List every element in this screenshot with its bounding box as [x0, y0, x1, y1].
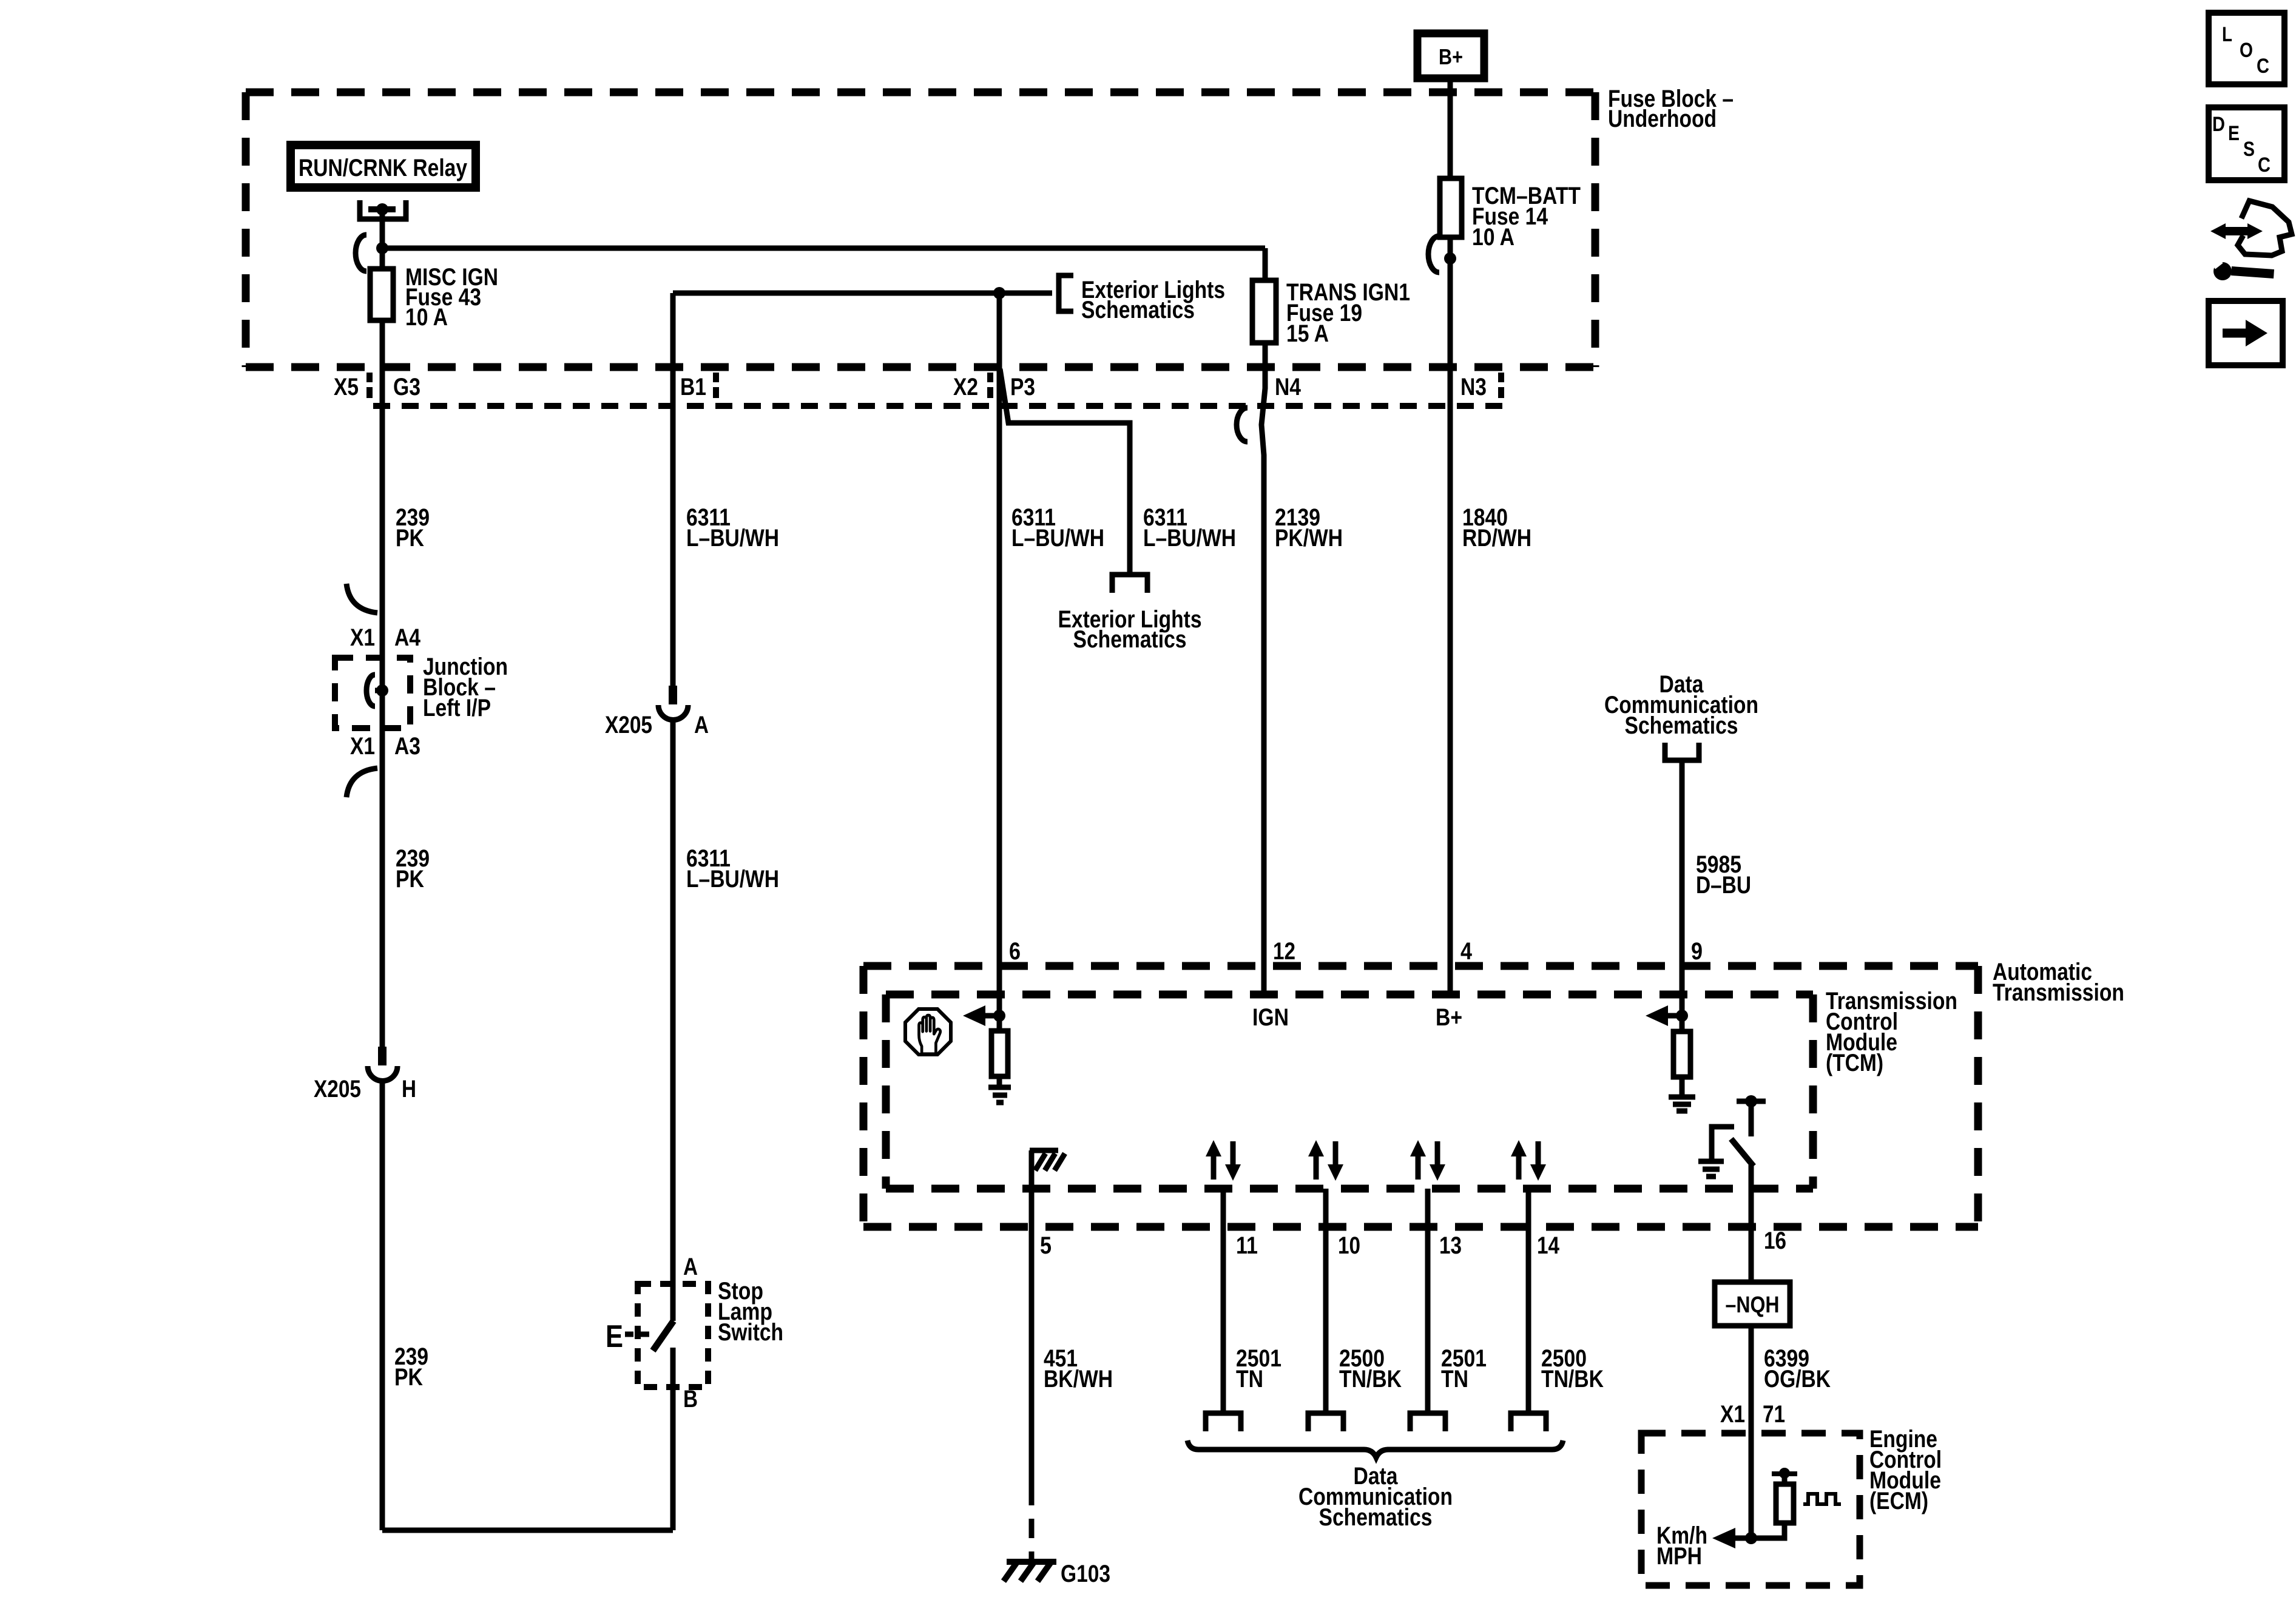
svg-text:4: 4	[1460, 938, 1473, 965]
wire label 6311 L-BU/WH (branch)	[1143, 504, 1236, 552]
svg-text:6: 6	[1009, 938, 1021, 965]
pin 9 arrow left	[1666, 1013, 1682, 1019]
connector separator X2	[987, 373, 993, 398]
svg-text:Left I/P: Left I/P	[423, 695, 491, 721]
svg-text:X5: X5	[334, 374, 359, 400]
svg-text:9: 9	[1691, 938, 1703, 965]
pin 10 wire	[1323, 1189, 1329, 1413]
icon DESC box	[2209, 107, 2284, 180]
svg-text:16: 16	[1764, 1227, 1786, 1254]
clip below junction block	[346, 768, 377, 797]
connector X205 A	[669, 686, 677, 704]
svg-text:E: E	[2228, 122, 2240, 145]
svg-text:X205: X205	[314, 1076, 361, 1102]
TCM inner dashed box	[886, 994, 1813, 1189]
svg-text:PK: PK	[396, 866, 424, 893]
relay RUN/CRNK box	[291, 145, 476, 187]
wire TRANS IGN1 fuse to pin 12	[1261, 343, 1265, 994]
wire relay output to TRANS IGN1 fuse	[382, 246, 1265, 251]
svg-text:X2: X2	[953, 374, 978, 400]
svg-text:TN/BK: TN/BK	[1339, 1366, 1402, 1393]
svg-text:B+: B+	[1439, 44, 1463, 69]
svg-text:N3: N3	[1460, 374, 1487, 400]
junction block left I/P dashed box	[335, 658, 410, 728]
svg-text:11: 11	[1236, 1232, 1258, 1259]
connector label X1 A4	[350, 624, 421, 651]
svg-text:B+: B+	[1436, 1004, 1462, 1031]
wire B+ down to TCM-BATT fuse	[1448, 76, 1453, 178]
switch pin B label	[683, 1386, 698, 1413]
svg-text:L–BU/WH: L–BU/WH	[686, 525, 779, 552]
wire label 2501 TN	[1236, 1345, 1281, 1393]
svg-text:H: H	[402, 1076, 416, 1102]
svg-text:Switch: Switch	[718, 1319, 783, 1346]
brace data communication	[1187, 1440, 1563, 1457]
exterior lights schematics bracket (right)	[1059, 275, 1073, 311]
svg-text:OG/BK: OG/BK	[1764, 1366, 1831, 1393]
hand glyph	[919, 1015, 940, 1054]
svg-text:(ECM): (ECM)	[1869, 1488, 1928, 1514]
exterior lights lower bracket	[1112, 575, 1147, 593]
pin 5 label	[1040, 1232, 1052, 1259]
terminal pin 13	[1410, 1413, 1445, 1431]
switch E actuator symbol	[606, 1319, 623, 1354]
svg-text:10 A: 10 A	[1472, 224, 1514, 251]
data communication schematics bracket (top)	[1665, 743, 1699, 760]
pin 9 resistor	[1680, 1016, 1685, 1031]
wire corner to exterior lights bracket	[673, 291, 1052, 296]
pin 16 wire down to -NQH	[1749, 1165, 1754, 1282]
switch blade	[653, 1321, 674, 1351]
ECM pull-up resistor	[1751, 1523, 1784, 1538]
ECM pulse signal symbol	[1803, 1494, 1841, 1504]
svg-text:G103: G103	[1061, 1561, 1110, 1587]
junction dot inside junction block	[376, 684, 388, 697]
svg-text:TN: TN	[1441, 1366, 1468, 1393]
svg-text:PK/WH: PK/WH	[1275, 525, 1343, 552]
svg-text:(TCM): (TCM)	[1826, 1050, 1883, 1076]
svg-text:5: 5	[1040, 1232, 1052, 1259]
IGN node label	[1252, 1004, 1289, 1031]
svg-text:D–BU: D–BU	[1696, 872, 1751, 899]
wire label 2501 TN	[1441, 1345, 1487, 1393]
wire stop lamp switch A up to B1 (6311 L-BU/WH)	[670, 720, 676, 1321]
svg-text:L–BU/WH: L–BU/WH	[1143, 525, 1236, 552]
dashed wire to G103	[1029, 1486, 1035, 1559]
terminal pin 10	[1308, 1413, 1343, 1431]
pin 6 node dot	[993, 1010, 1005, 1022]
wire -NQH to ECM pin 71 (6399 OG/BK)	[1749, 1326, 1754, 1538]
svg-text:X1: X1	[350, 624, 375, 651]
icon wrench	[2231, 266, 2274, 279]
relay terminal bracket	[360, 200, 406, 219]
wire label 2500 TN/BK	[1339, 1345, 1402, 1393]
pin 13 wire	[1425, 1189, 1431, 1413]
wire P3 down to pin 6 (6311 L-BU/WH)	[997, 293, 1002, 1016]
pin 14 wire	[1526, 1189, 1531, 1413]
svg-text:S: S	[2243, 138, 2255, 161]
B+ terminal box	[1417, 33, 1484, 78]
svg-text:L–BU/WH: L–BU/WH	[686, 866, 779, 893]
svg-text:L: L	[2222, 23, 2232, 46]
wire label 239 PK (upper)	[396, 504, 430, 552]
pin 10 up/down arrows	[1308, 1140, 1343, 1181]
-NQH option box	[1715, 1282, 1790, 1326]
svg-text:P3: P3	[1010, 374, 1035, 400]
fuse TCM-BATT Fuse 14	[1440, 178, 1462, 237]
automatic transmission outer dashed box	[863, 966, 1978, 1227]
svg-text:15 A: 15 A	[1286, 320, 1329, 347]
svg-text:IGN: IGN	[1252, 1004, 1289, 1031]
pin 6 resistor	[997, 1016, 1002, 1031]
connector separator X5	[366, 373, 373, 398]
svg-text:G3: G3	[393, 374, 420, 400]
stop lamp switch dashed box	[638, 1284, 708, 1387]
connector labels	[334, 374, 1487, 400]
svg-text:B: B	[683, 1386, 698, 1413]
wire TCM-BATT fuse to pin 4	[1448, 237, 1453, 994]
fuse block underhood dashed box	[246, 92, 1595, 367]
pin 11 wire	[1221, 1189, 1226, 1413]
svg-text:C: C	[2257, 55, 2269, 78]
fuse TRANS IGN1 Fuse 19	[1252, 280, 1276, 343]
connector separator B1	[713, 373, 719, 398]
engine control module dashed box	[1641, 1433, 1860, 1585]
svg-text:Schematics: Schematics	[1625, 712, 1738, 739]
pin 16 switch fixed contact to ground	[1712, 1127, 1734, 1160]
svg-text:TN: TN	[1236, 1366, 1263, 1393]
svg-text:PK: PK	[396, 525, 424, 552]
svg-text:X1: X1	[1720, 1401, 1745, 1428]
pin 16 switch blade	[1731, 1139, 1754, 1166]
svg-text:RD/WH: RD/WH	[1462, 525, 1531, 552]
svg-text:A: A	[683, 1254, 698, 1280]
connector row dashed line	[373, 403, 1512, 409]
ground G103	[1007, 1559, 1056, 1565]
svg-text:Schematics: Schematics	[1319, 1504, 1433, 1531]
wire X205 A up to corner at fuse block	[670, 293, 676, 686]
pin 9 label	[1691, 938, 1703, 965]
svg-text:RUN/CRNK Relay: RUN/CRNK Relay	[299, 155, 468, 181]
wire label 2500 TN/BK	[1541, 1345, 1604, 1393]
switch pin A label	[683, 1254, 698, 1280]
svg-text:14: 14	[1537, 1232, 1560, 1259]
svg-text:A: A	[694, 712, 709, 738]
clip at N4	[1237, 408, 1248, 442]
svg-text:TN/BK: TN/BK	[1541, 1366, 1604, 1393]
svg-text:Schematics: Schematics	[1081, 297, 1195, 323]
clip at relay output	[356, 235, 366, 271]
svg-text:X1: X1	[350, 733, 375, 760]
svg-text:Transmission: Transmission	[1993, 979, 2124, 1006]
pin 13 up/down arrows	[1410, 1140, 1445, 1181]
pin 5 internal chassis ground	[1029, 1150, 1035, 1486]
connector label X1 71	[1720, 1401, 1785, 1428]
pin 12 label	[1273, 938, 1295, 965]
pin 4 label	[1460, 938, 1473, 965]
svg-text:Underhood: Underhood	[1608, 106, 1717, 132]
wire label 239 PK (middle)	[396, 845, 430, 893]
svg-text:MPH: MPH	[1656, 1543, 1702, 1570]
junction dot below TCM-BATT fuse	[1444, 252, 1456, 265]
wire label 1840 RD/WH	[1462, 504, 1531, 552]
connector label X1 A3	[350, 733, 420, 760]
svg-text:71: 71	[1763, 1401, 1785, 1428]
clip at TCM-BATT fuse output	[1428, 236, 1439, 272]
svg-text:D: D	[2212, 113, 2225, 136]
fuse MISC IGN Fuse 43	[370, 269, 393, 320]
svg-text:E: E	[606, 1319, 623, 1354]
ECM node dot	[1745, 1532, 1757, 1544]
wire label 2139 PK/WH	[1275, 504, 1343, 552]
clip above junction block	[346, 584, 377, 613]
pin 16 switch top contact	[1737, 1099, 1766, 1104]
svg-text:L–BU/WH: L–BU/WH	[1011, 525, 1104, 552]
terminal pin 14	[1511, 1413, 1546, 1431]
connector separator N3	[1498, 373, 1504, 398]
pin 9 ground	[1680, 1077, 1685, 1095]
svg-text:12: 12	[1273, 938, 1295, 965]
icon LOC box	[2209, 13, 2284, 84]
svg-text:Schematics: Schematics	[1073, 626, 1187, 653]
svg-text:BK/WH: BK/WH	[1044, 1366, 1113, 1393]
junction dot relay output	[376, 242, 388, 254]
connector X205 H	[378, 1047, 387, 1065]
svg-text:B1: B1	[680, 374, 706, 400]
svg-text:X205: X205	[605, 712, 652, 738]
wire label 451 BK/WH	[1044, 1345, 1113, 1393]
wire data comm to pin 9 (5985 D-BU)	[1680, 760, 1685, 1016]
fuse block label	[1608, 86, 1734, 132]
svg-text:PK: PK	[394, 1364, 423, 1391]
wire branch P3 to exterior lights lower bracket	[1000, 369, 1130, 572]
svg-text:10 A: 10 A	[405, 304, 448, 331]
junction dot at P3 branch	[993, 287, 1005, 299]
pin 6 label	[1009, 938, 1021, 965]
wire MISC IGN fuse to junction block (239 PK)	[380, 320, 385, 1047]
hand icon octagon	[905, 1009, 951, 1055]
clip inside junction block	[366, 675, 375, 706]
pin 6 ground	[997, 1076, 1002, 1086]
svg-text:–NQH: –NQH	[1726, 1292, 1780, 1318]
B+ node label	[1436, 1004, 1462, 1031]
svg-text:N4: N4	[1275, 374, 1302, 400]
icon vehicle outline with double arrow	[2238, 201, 2292, 255]
ECM speed output arrow	[1733, 1536, 1751, 1541]
pin 9 node dot	[1676, 1010, 1688, 1022]
bottom wire to stop lamp switch	[382, 1528, 673, 1533]
svg-text:10: 10	[1338, 1232, 1360, 1259]
svg-text:13: 13	[1439, 1232, 1462, 1259]
pin 6 arrow left	[984, 1013, 999, 1019]
svg-text:A3: A3	[394, 733, 420, 760]
svg-text:C: C	[2258, 154, 2271, 177]
icon arrow box	[2209, 301, 2283, 365]
wire X205 H down (239 PK lower)	[380, 1081, 385, 1530]
wire relay to MISC IGN fuse	[380, 209, 385, 269]
pin 11 up/down arrows	[1206, 1140, 1241, 1181]
svg-text:O: O	[2240, 39, 2253, 62]
pin 14 up/down arrows	[1511, 1140, 1546, 1181]
terminal pin 11	[1206, 1413, 1241, 1431]
svg-text:A4: A4	[394, 624, 421, 651]
